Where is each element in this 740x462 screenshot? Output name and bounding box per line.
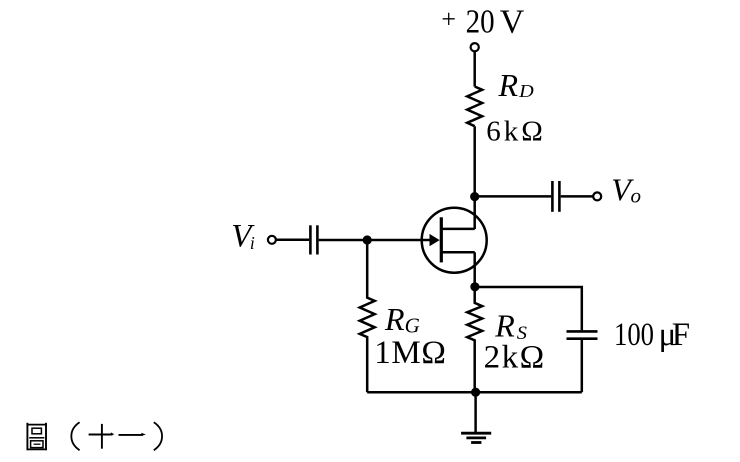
- svg-text:6kΩ: 6kΩ: [486, 116, 546, 148]
- label RD: [498, 67, 534, 103]
- wire bypass capacitor to ground rail: [581, 340, 584, 392]
- wire supply to RD: [473, 52, 476, 87]
- label RG: [384, 301, 420, 338]
- wire Vi terminal to input capacitor: [276, 239, 309, 242]
- svg-text:i: i: [250, 233, 255, 253]
- svg-text:20: 20: [466, 3, 495, 40]
- svg-text:D: D: [518, 81, 534, 101]
- node drain junction: [470, 192, 479, 201]
- 一 serif: [141, 433, 146, 436]
- capacitor Cin plate left: [309, 225, 312, 254]
- label RS: [494, 308, 527, 345]
- node ground rail junction: [471, 388, 480, 397]
- ） close paren: [154, 422, 162, 450]
- （ open paren: [71, 422, 79, 450]
- svg-text:V: V: [500, 4, 525, 41]
- svg-text:o: o: [631, 184, 642, 208]
- 圖 inner box: [31, 441, 43, 448]
- svg-text:R: R: [498, 67, 519, 103]
- transistor Q1 envelope circle: [422, 208, 487, 273]
- node +20V supply label: [441, 3, 524, 40]
- svg-text:1MΩ: 1MΩ: [374, 335, 446, 371]
- 圖 inner tick: [34, 443, 41, 445]
- label Vo: [611, 172, 641, 208]
- 圖 outer box bottom stroke: [27, 448, 47, 450]
- svg-text:+: +: [441, 4, 456, 33]
- label Vi: [231, 219, 255, 255]
- 圖 middle stroke: [29, 437, 44, 439]
- node source junction: [470, 282, 479, 291]
- terminal Vo: [593, 192, 601, 200]
- 圖 outer box left stroke: [26, 423, 28, 450]
- wire source lead down to node: [473, 252, 476, 288]
- wire capacitor to Vo terminal: [561, 195, 593, 198]
- resistor RS: [467, 288, 482, 392]
- ground: [461, 433, 491, 442]
- transistor Q1 JFET gate arrow: [430, 234, 440, 246]
- wire source node to bypass capacitor: [475, 287, 582, 330]
- resistor RG: [360, 240, 375, 392]
- 十 vertical: [101, 424, 103, 449]
- node gate junction: [363, 235, 372, 244]
- wire ground rail: [367, 391, 582, 394]
- transistor Q1 gate bar: [440, 217, 443, 262]
- capacitor C bypass bottom plate: [567, 337, 598, 340]
- value 6kΩ: [486, 116, 546, 148]
- wire RD to drain (through node): [473, 126, 476, 229]
- capacitor Cout plate left: [551, 181, 554, 212]
- wire input capacitor to gate: [319, 239, 431, 242]
- transistor Q1 source stub: [441, 251, 474, 254]
- 圖 outer box top stroke: [27, 424, 47, 426]
- wire drain node to output capacitor: [475, 195, 552, 198]
- supply terminal: [471, 43, 479, 51]
- 圖 outer box right stroke: [45, 423, 47, 450]
- 十 horizontal: [89, 434, 113, 436]
- wire rail to ground symbol: [474, 392, 477, 433]
- svg-text:F: F: [672, 317, 690, 353]
- value 1MΩ: [374, 335, 446, 371]
- transistor Q1 drain stub: [441, 228, 474, 231]
- resistor RD: [467, 87, 482, 127]
- value 100 µF: [614, 317, 690, 353]
- 一 horizontal: [119, 434, 144, 436]
- value 2kΩ: [484, 340, 546, 376]
- svg-text:R: R: [494, 308, 515, 344]
- caption 圖（十一） figure eleven: [27, 422, 163, 450]
- svg-text:100: 100: [614, 317, 654, 353]
- svg-text:R: R: [384, 301, 405, 337]
- svg-text:2kΩ: 2kΩ: [484, 340, 546, 376]
- capacitor C bypass top plate: [567, 330, 598, 333]
- capacitor Cin plate right: [316, 225, 319, 254]
- terminal Vi: [268, 236, 276, 244]
- capacitor Cout plate right: [558, 181, 561, 212]
- 十 serif: [111, 432, 115, 435]
- 圖 inner mouth: [32, 428, 41, 434]
